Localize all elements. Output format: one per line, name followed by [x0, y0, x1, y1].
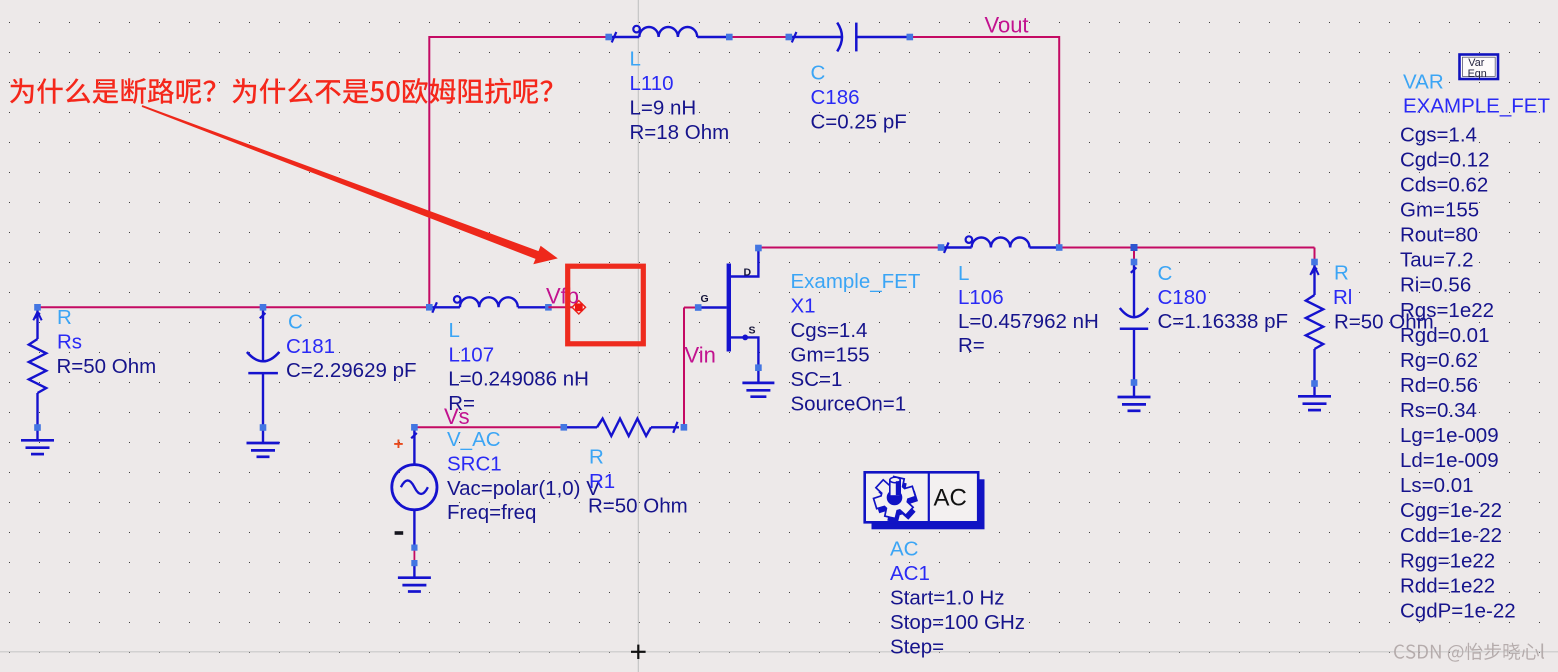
svg-text:R=50 Ohm: R=50 Ohm: [588, 495, 688, 518]
svg-text:Rs=0.34: Rs=0.34: [1400, 399, 1477, 422]
svg-text:L110: L110: [630, 72, 674, 95]
svg-text:Cgs=1.4: Cgs=1.4: [1400, 123, 1477, 146]
wire top feedback y=37: [429, 36, 608, 38]
wire drain to L106: [758, 247, 941, 249]
svg-text:L=0.457962 nH: L=0.457962 nH: [958, 310, 1099, 333]
ground SRC1: [398, 578, 431, 592]
svg-text:Rgd=0.01: Rgd=0.01: [1400, 324, 1489, 347]
svg-text:V_AC: V_AC: [447, 428, 501, 451]
svg-text:AC1: AC1: [890, 562, 930, 585]
voltage source SRC1 V_AC: [413, 427, 415, 464]
svg-text:Vac=polar(1,0) V: Vac=polar(1,0) V: [447, 477, 600, 500]
svg-text:Rout=80: Rout=80: [1400, 224, 1478, 247]
ground Rs: [21, 440, 54, 454]
svg-text:R: R: [1334, 262, 1349, 285]
svg-text:R: R: [589, 446, 604, 469]
wire stub to Rl: [1314, 248, 1316, 263]
svg-text:L=0.249086 nH: L=0.249086 nH: [448, 367, 589, 390]
inductor L110: [609, 26, 730, 37]
wire stub to Vfb marker: [548, 306, 576, 308]
AC controller icon: [865, 472, 985, 529]
node Vfb marker: [572, 301, 585, 314]
svg-text:Rgg=1e22: Rgg=1e22: [1400, 549, 1495, 572]
svg-text:Example_FET: Example_FET: [791, 270, 921, 293]
svg-text:Rd=0.56: Rd=0.56: [1400, 374, 1478, 397]
svg-text:R=18 Ohm: R=18 Ohm: [630, 121, 730, 144]
svg-text:CgdP=1e-22: CgdP=1e-22: [1400, 599, 1516, 622]
svg-text:C: C: [288, 310, 303, 333]
annotation highlight box: [568, 266, 644, 344]
svg-text:VAR: VAR: [1403, 71, 1444, 94]
svg-text:SourceOn=1: SourceOn=1: [791, 393, 907, 416]
svg-text:AC: AC: [890, 538, 919, 561]
capacitor C181: [262, 307, 264, 361]
svg-text:Cds=0.62: Cds=0.62: [1400, 174, 1488, 197]
svg-text:Tau=7.2: Tau=7.2: [1400, 249, 1474, 272]
svg-text:C181: C181: [286, 335, 335, 358]
svg-text:R1: R1: [589, 470, 615, 493]
wire output net y=247.5: [1059, 247, 1314, 249]
wire stub to C180: [1133, 248, 1135, 263]
wire input net y=307: [38, 306, 430, 308]
wire Vs net y=427: [414, 426, 563, 428]
svg-text:G: G: [701, 293, 709, 305]
svg-text:C: C: [1158, 262, 1173, 285]
VAR VarEqn icon: [1460, 55, 1499, 80]
svg-text:L106: L106: [958, 286, 1004, 309]
wire V_AC bottom segment: [413, 548, 415, 564]
svg-text:+: +: [394, 435, 404, 454]
wire Vb riser x=429: [428, 36, 430, 307]
svg-text:SRC1: SRC1: [447, 452, 502, 475]
page origin crosshair: [631, 651, 646, 653]
svg-text:S: S: [749, 325, 756, 337]
svg-text:L107: L107: [449, 344, 495, 367]
svg-text:Rg=0.62: Rg=0.62: [1400, 349, 1478, 372]
svg-text:L: L: [449, 319, 460, 342]
inductor L106: [941, 236, 1059, 247]
resistor Rs: [36, 307, 38, 339]
svg-text:C186: C186: [811, 86, 860, 109]
wire Vout riser x=1059: [1058, 36, 1060, 248]
svg-text:Vout: Vout: [985, 13, 1029, 38]
svg-text:D: D: [744, 266, 752, 278]
ground C180: [1118, 397, 1151, 411]
svg-text:Rdd=1e22: Rdd=1e22: [1400, 574, 1495, 597]
svg-text:Rs: Rs: [57, 331, 82, 354]
page boundary lines: [637, 0, 639, 672]
svg-text:Rgs=1e22: Rgs=1e22: [1400, 299, 1494, 322]
svg-text:Ri=0.56: Ri=0.56: [1400, 274, 1471, 297]
watermark: [1394, 643, 1544, 662]
ground C181: [247, 443, 280, 457]
svg-text:Vin: Vin: [685, 343, 716, 368]
svg-text:Gm=155: Gm=155: [791, 344, 870, 367]
svg-text:Ld=1e-009: Ld=1e-009: [1400, 449, 1499, 472]
svg-text:Ls=0.01: Ls=0.01: [1400, 474, 1474, 497]
capacitor C180: [1133, 262, 1135, 317]
svg-text:Step=: Step=: [890, 636, 944, 659]
svg-text:SC=1: SC=1: [791, 368, 843, 391]
annotation arrow: [142, 105, 558, 264]
svg-text:C=0.25 pF: C=0.25 pF: [811, 111, 907, 134]
svg-text:Lg=1e-009: Lg=1e-009: [1400, 424, 1499, 447]
svg-text:X1: X1: [791, 295, 816, 318]
svg-text:Cgd=0.12: Cgd=0.12: [1400, 148, 1489, 171]
junction node: [1131, 244, 1138, 251]
svg-text:Rl: Rl: [1333, 286, 1352, 309]
wire L110 to C186: [729, 36, 789, 38]
svg-text:C=1.16338 pF: C=1.16338 pF: [1158, 310, 1289, 333]
svg-text:R=: R=: [958, 334, 985, 357]
ground Rl: [1298, 396, 1331, 410]
svg-text:AC: AC: [934, 484, 967, 511]
svg-text:Freq=freq: Freq=freq: [447, 501, 536, 524]
svg-text:Eqn: Eqn: [1468, 68, 1487, 80]
transistor X1 Example_FET: [698, 250, 758, 365]
resistor R1: [564, 426, 597, 428]
svg-text:C180: C180: [1158, 286, 1207, 309]
svg-text:Vs: Vs: [444, 404, 470, 429]
svg-text:C: C: [811, 62, 826, 85]
wire gate stub: [684, 307, 698, 309]
svg-text:R=50 Ohm: R=50 Ohm: [57, 355, 157, 378]
capacitor C186: [789, 36, 842, 38]
svg-text:Cgg=1e-22: Cgg=1e-22: [1400, 499, 1502, 522]
svg-text:Vfb: Vfb: [546, 284, 579, 309]
wire Vin riser x=684: [683, 308, 685, 428]
svg-text:L=9 nH: L=9 nH: [630, 97, 697, 120]
wire C186 to Vout corner: [910, 36, 1059, 38]
svg-text:L: L: [958, 262, 969, 285]
svg-text:Stop=100 GHz: Stop=100 GHz: [890, 611, 1025, 634]
svg-text:R: R: [57, 306, 72, 329]
svg-text:C=2.29629 pF: C=2.29629 pF: [286, 359, 417, 382]
annotation headline text: [10, 78, 552, 104]
svg-text:Cdd=1e-22: Cdd=1e-22: [1400, 524, 1502, 547]
resistor Rl: [1313, 262, 1315, 295]
svg-text:Start=1.0 Hz: Start=1.0 Hz: [890, 587, 1005, 610]
inductor L107: [429, 296, 548, 307]
ground X1 source: [742, 383, 774, 397]
svg-text:Cgs=1.4: Cgs=1.4: [791, 319, 868, 342]
svg-text:L: L: [630, 48, 641, 71]
svg-text:Gm=155: Gm=155: [1400, 199, 1479, 222]
svg-text:EXAMPLE_FET: EXAMPLE_FET: [1403, 95, 1550, 118]
